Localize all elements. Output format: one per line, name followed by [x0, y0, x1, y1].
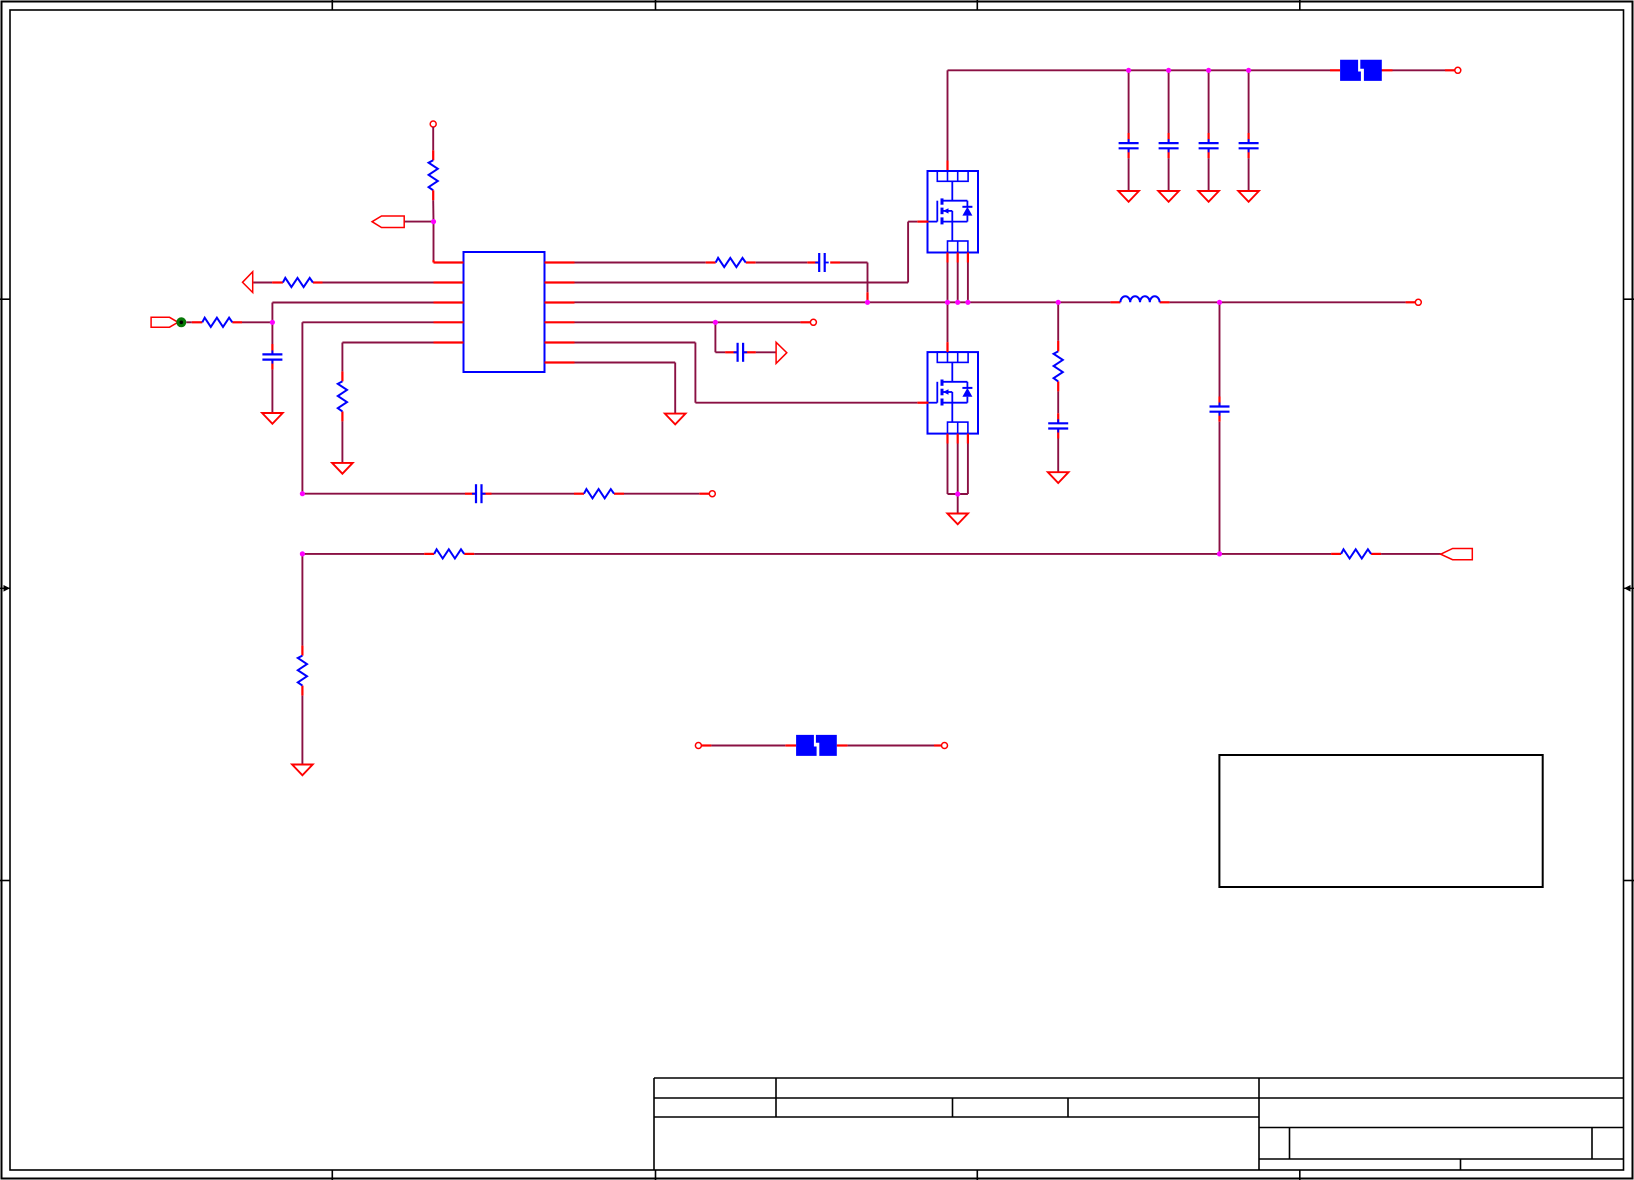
fuse F2	[796, 735, 837, 756]
node fuse right circle	[942, 743, 948, 749]
wire bottom bus	[302, 553, 1440, 555]
fuse F1	[1340, 60, 1382, 81]
wire Q2 source to ground	[957, 494, 959, 514]
resistor R9 comp	[584, 489, 614, 498]
junction EN	[431, 219, 436, 224]
capacitor C6 BST	[815, 253, 829, 272]
wire FB left net	[186, 321, 272, 323]
wire pin4 right net	[575, 321, 811, 323]
resistor R3 FB top	[202, 318, 232, 327]
wire fuse net	[701, 744, 941, 746]
capacitor C10 comp	[472, 484, 486, 503]
wire SW bus	[575, 301, 1416, 303]
resistor R4 RT	[338, 381, 347, 411]
wire SS net	[254, 282, 434, 284]
ground cap C1	[1118, 191, 1139, 202]
junction VIN C3	[1206, 68, 1211, 73]
ground snubber	[1048, 472, 1069, 483]
wire FB pin3	[272, 303, 433, 323]
capacitor C8 output	[1210, 403, 1230, 416]
port EN flag	[372, 216, 404, 228]
junction SW snubber	[1056, 300, 1061, 305]
op-amp U1 controller box	[464, 252, 545, 372]
wire Q1 source stubs	[948, 253, 968, 303]
wire VIN top net	[948, 70, 1446, 160]
capacitor C4	[1239, 139, 1259, 152]
junction SW a	[945, 300, 950, 305]
wire cap C2 leg	[1168, 70, 1170, 191]
ground R4	[332, 463, 353, 474]
junction SW output	[1217, 300, 1222, 305]
ground cap C3	[1198, 191, 1219, 202]
port VOUT return flag	[1441, 549, 1473, 560]
wire U1 right pin stubs	[545, 263, 575, 363]
port VOUT sense flag	[151, 317, 178, 327]
wire Q2 drain stub	[947, 302, 949, 352]
node fuse left circle	[695, 743, 701, 749]
capacitor C9	[734, 343, 748, 362]
wire PGND	[575, 363, 676, 414]
junction pin4	[713, 320, 718, 325]
capacitor C5 FB	[262, 350, 282, 363]
wire cap C1 leg	[1128, 70, 1130, 191]
ground R10	[292, 765, 313, 776]
junction Q2 source	[955, 491, 960, 496]
ground Q2 source	[947, 514, 968, 525]
inductor L1	[1120, 296, 1159, 302]
wire comp RC	[302, 493, 709, 495]
port arrow right	[776, 342, 787, 363]
junction SW c	[965, 300, 970, 305]
resistor R1 EN pullup	[429, 160, 438, 190]
wire VOUT cap leg	[1219, 302, 1221, 554]
wire pin4 branch	[715, 322, 775, 352]
transistor Q1	[928, 171, 979, 253]
junction VIN C1	[1126, 68, 1131, 73]
junction BST-SW	[865, 300, 870, 305]
wire FB cap leg	[271, 322, 273, 413]
node VIN open circle	[1455, 67, 1461, 73]
junction VIN C4	[1246, 68, 1251, 73]
wire lower-left leg	[301, 554, 303, 765]
wire RT net	[342, 343, 433, 463]
node comp open circle	[709, 491, 715, 497]
resistor R7 bottom left	[434, 549, 464, 558]
ground cap C2	[1158, 191, 1179, 202]
wire EN net	[404, 190, 433, 262]
ground U1 pin6	[665, 414, 686, 425]
transistor Q2	[928, 352, 979, 434]
node VOUT sense green dot	[176, 317, 186, 327]
wire BST net	[575, 263, 868, 303]
junction comp	[300, 491, 305, 496]
wire cap C4 leg	[1248, 70, 1250, 191]
capacitor C7 snubber	[1048, 419, 1068, 432]
ground cap C4	[1238, 191, 1259, 202]
resistor R5 BST	[716, 258, 746, 267]
junction FB	[270, 320, 275, 325]
wire HO gate	[575, 222, 918, 283]
ground C5	[262, 413, 283, 424]
capacitor C3	[1199, 139, 1219, 152]
wire Q2 source stubs	[948, 434, 968, 494]
notes box	[1219, 755, 1542, 887]
capacitor C2	[1159, 139, 1179, 152]
resistor R8 bottom right	[1341, 549, 1371, 558]
wire Q2 gate stub	[917, 402, 928, 404]
wire VIN stubs red	[948, 70, 1455, 171]
capacitor C1	[1119, 139, 1139, 152]
wire EN pullup	[432, 127, 434, 160]
junction bottom bus left	[300, 551, 305, 556]
node EN pullup open circle	[430, 121, 436, 127]
resistor R2 SS	[283, 278, 313, 287]
junction SW b	[955, 300, 960, 305]
wire LO gate	[575, 343, 918, 403]
resistor R10 lower left	[298, 656, 307, 686]
port SS triangle	[243, 272, 253, 293]
wire U1 left pin stubs	[434, 263, 464, 343]
resistor R6 snubber	[1054, 351, 1063, 381]
wire snubber leg	[1057, 302, 1059, 472]
wire cap C3 leg	[1208, 70, 1210, 191]
node pin4 open circle	[810, 319, 816, 325]
node SW open circle	[1415, 299, 1421, 305]
wire Q1 gate stub	[917, 221, 928, 223]
junction VIN C2	[1166, 68, 1171, 73]
wire pin4 comp	[302, 322, 433, 493]
junction VOUT bottom	[1217, 551, 1222, 556]
